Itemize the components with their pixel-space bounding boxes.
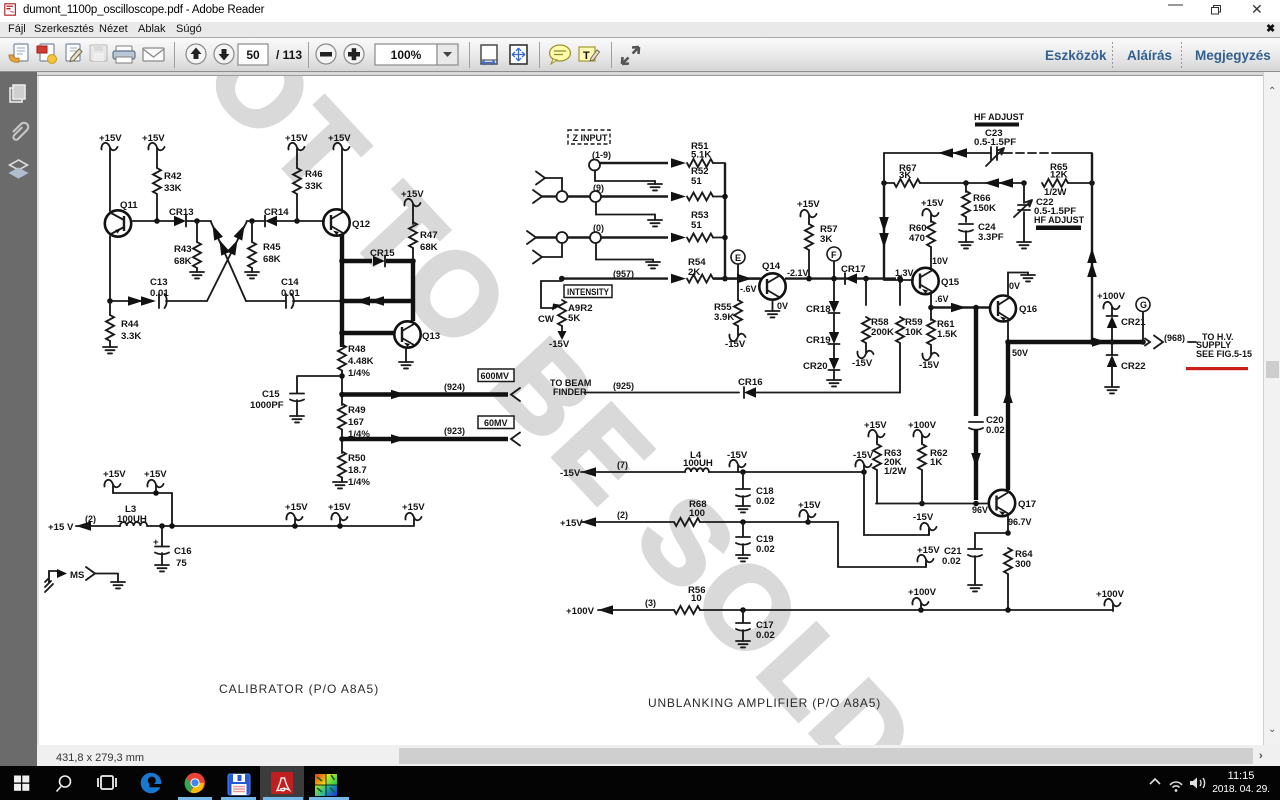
- resistor R45: [245, 221, 281, 278]
- diode CR13: [169, 207, 211, 227]
- node dots: [339, 298, 345, 304]
- connector (1-9): [589, 150, 611, 171]
- thick wire Q17 collector with up arrow: [1003, 342, 1013, 490]
- wire -15V output (7): [560, 460, 685, 479]
- zoom in: [344, 44, 364, 64]
- node E: [731, 250, 745, 279]
- resistor R55: [714, 279, 746, 350]
- connector chevron 1: [536, 172, 562, 192]
- resistor R56: [674, 585, 1113, 614]
- resistor R53: [687, 210, 725, 242]
- wire (9) ground drop: [596, 203, 662, 226]
- wire down to +15V rail: [171, 493, 173, 526]
- node dots CR15 row: [339, 258, 345, 264]
- resistor R54: [687, 257, 762, 283]
- power +100V (end rail): [1096, 589, 1125, 611]
- thick wire 50V row to HV: [1008, 337, 1150, 347]
- node dots on 50V row: [1089, 339, 1095, 345]
- node dots Q14 row: [806, 276, 812, 282]
- print icon: [113, 46, 135, 63]
- node dot: [194, 218, 200, 224]
- colorful viewer: [315, 774, 337, 796]
- node dot 50V: [1005, 339, 1011, 345]
- capacitor C16: [153, 526, 192, 571]
- node dot Q15 emitter: [928, 305, 934, 311]
- power +15V P4: [328, 133, 351, 210]
- potentiometer A9R2: [538, 279, 593, 350]
- wire +15V output (2): [560, 510, 674, 529]
- diode CR19: [806, 313, 840, 346]
- node dot (957): [559, 276, 565, 282]
- label TO H.V. SUPPLY: [1196, 332, 1252, 359]
- transistor Q12: [323, 209, 370, 235]
- node dots (7) line: [740, 469, 746, 475]
- chrome: [185, 773, 205, 793]
- power +100V (mid rail): [908, 587, 937, 610]
- transistor Q15: [884, 268, 960, 294]
- power +15V P1: [99, 133, 122, 211]
- thick bus Z input sum: [724, 163, 726, 279]
- node dot right bus top: [1089, 180, 1095, 186]
- wire (7) line to junction: [709, 471, 864, 473]
- node dots: [249, 218, 255, 224]
- connector chevron 2: [533, 190, 557, 203]
- diode CR15: [370, 248, 413, 267]
- wire line (9): [568, 183, 668, 202]
- wire left feedback vertical: [883, 153, 885, 183]
- connector (968) to HV supply: [1154, 333, 1196, 349]
- wire (924) 600MV output: [342, 382, 520, 401]
- resistor R44: [103, 301, 141, 353]
- label HF ADJUST (C22): [1034, 215, 1085, 230]
- search: [57, 776, 71, 792]
- arrow R51: [671, 158, 686, 168]
- task view: [98, 776, 116, 789]
- svg-text:100%: 100%: [391, 48, 422, 62]
- capacitor C23 (trimmer): [974, 128, 1016, 166]
- resistor R61: [919, 319, 957, 371]
- node dot: [107, 298, 113, 304]
- wire -15V drop to C21 row: [864, 472, 937, 535]
- power +100V CR21: [1097, 291, 1126, 315]
- thick bus Q12 emitter: [340, 235, 344, 347]
- expand arrows: [622, 47, 639, 64]
- capacitor C15: [250, 376, 342, 422]
- cross-coupling diagonal D1 (to C14): [208, 222, 246, 301]
- power +15V P2: [142, 133, 165, 168]
- wire Q16 emitter: [1007, 321, 1009, 342]
- connector chevron 4: [533, 243, 562, 264]
- inductor L3: [117, 504, 147, 526]
- thick bus R47/Q13 collector: [411, 261, 415, 321]
- node dot emitter: [1005, 530, 1011, 536]
- thick arrow into Q14: [737, 274, 752, 284]
- node dots (2) line: [740, 519, 746, 525]
- power +15V P6: [103, 469, 172, 493]
- wire line (1-9) to R51: [600, 162, 668, 164]
- power +15V P10: [402, 502, 425, 525]
- capacitor C18: [736, 472, 775, 512]
- wire line (0): [536, 223, 668, 243]
- resistor R42: [153, 168, 182, 221]
- resistor R65: [1042, 162, 1092, 198]
- export icon: [37, 44, 57, 64]
- page num box: [238, 44, 268, 65]
- connector MS: [45, 567, 125, 592]
- comment bubble: [550, 45, 571, 64]
- cross-coupling diagonal D2 (to C13): [207, 222, 249, 301]
- node dot R66 top: [963, 180, 969, 186]
- capacitor C24: [959, 222, 1004, 248]
- thick bus down with arrows: [879, 183, 889, 280]
- wire (2) line jog to +15V: [808, 522, 940, 567]
- wire with arrows to C22: [966, 178, 1024, 188]
- inductor L4: [683, 450, 713, 472]
- power +15V (on (2) line): [798, 500, 821, 522]
- wire (0) ground drop: [596, 244, 660, 268]
- wire (1-9) ground drop: [595, 170, 662, 190]
- capacitor C22 (trimmer): [1014, 183, 1076, 248]
- resistor R63: [873, 442, 907, 504]
- label box 600MV: [478, 369, 514, 382]
- wire feedback top row: [884, 148, 1092, 158]
- resistor R62: [918, 442, 948, 504]
- diode CR21: [1107, 316, 1147, 342]
- label HF ADJUST (top): [974, 112, 1025, 127]
- resistor R52: [687, 166, 725, 201]
- page down: [214, 44, 234, 64]
- start: [14, 776, 29, 791]
- node dot R67 left: [881, 180, 887, 186]
- resistor R60: [909, 221, 948, 268]
- save icon (disabled): [90, 45, 107, 61]
- label box 60MV: [478, 416, 514, 429]
- zoom out: [316, 44, 336, 64]
- node dots +100V line: [740, 607, 746, 613]
- capacitor C13: [110, 277, 207, 308]
- thick wire arrows row to C14: [342, 296, 413, 306]
- wire Q17 base row: [876, 503, 989, 505]
- node dots on bus: [722, 194, 728, 200]
- wire Q14 collector row: [785, 277, 896, 279]
- transistor Q16: [990, 296, 1037, 322]
- transistor Q14: [713, 261, 788, 317]
- capacitor C17: [736, 610, 775, 647]
- capacitor C19: [736, 522, 775, 561]
- zoom box: [375, 44, 437, 65]
- diode CR20: [803, 344, 841, 386]
- power +15V P3 / resistor R46: [285, 133, 323, 221]
- svg-text:/ 113: / 113: [276, 48, 302, 62]
- node dot C15 tap: [339, 373, 345, 379]
- resistor R50: [333, 452, 370, 489]
- node dots base row: [919, 501, 925, 507]
- adobe active bg: [260, 766, 304, 800]
- power +15V R57: [797, 199, 820, 224]
- resistor R67: [884, 163, 966, 187]
- red underline: [1186, 367, 1248, 370]
- edit icon: [66, 44, 82, 62]
- wire Q16 collector to ground: [1008, 273, 1035, 297]
- wire +15V rail: [147, 525, 414, 527]
- thick wire CR15 row: [342, 259, 372, 263]
- wire (923) 60MV output: [342, 426, 520, 446]
- node G: [1136, 298, 1150, 343]
- node dots on rail: [159, 523, 165, 529]
- transistor Q13: [342, 321, 440, 368]
- open/convert icon: [9, 44, 28, 62]
- email icon: [143, 48, 164, 61]
- resistor R58: [852, 279, 894, 369]
- arrow R52: [671, 192, 686, 202]
- resistor R59: [896, 276, 923, 393]
- power -15V (at 864): [853, 450, 874, 472]
- resistor R57: [805, 224, 838, 279]
- diode CR14: [247, 207, 324, 227]
- thick bus C20 (Q16 base tap): [969, 308, 1005, 501]
- wire to CR13: [157, 220, 174, 222]
- wire Q11 base: [131, 220, 157, 222]
- node dot C20 bus top: [973, 305, 979, 311]
- resistor R48: [338, 344, 374, 405]
- wire right feedback vertical with up arrows: [1087, 153, 1097, 342]
- power +15V R60: [921, 198, 944, 222]
- power -15V on (7) line: [727, 450, 748, 472]
- wire TO BEAM FINDER (925): [550, 377, 900, 398]
- svg-text:50: 50: [246, 48, 260, 62]
- node dot: [154, 218, 160, 224]
- power +15V P9: [328, 502, 351, 525]
- capacitor C14: [246, 277, 341, 308]
- resistor R49: [338, 404, 370, 454]
- power +15V P8: [285, 502, 308, 525]
- floppy app: [228, 774, 250, 795]
- power +100V (R62): [908, 420, 937, 442]
- transistor Q17: [989, 490, 1036, 516]
- diode CR17: [841, 264, 866, 284]
- resistor R64: [1004, 548, 1033, 610]
- diode CR22: [1105, 342, 1146, 393]
- diode chain CR18: [831, 276, 837, 282]
- highlight text: [579, 47, 600, 62]
- resistor R51: [687, 141, 725, 167]
- label box INTENSITY: [564, 285, 612, 298]
- transistor Q11: [105, 200, 138, 301]
- connector chevron 3: [527, 231, 536, 244]
- resistor R43: [174, 221, 204, 278]
- node dot C22 top: [1021, 180, 1027, 186]
- edge: [141, 773, 162, 794]
- resistor R66: [962, 183, 996, 222]
- fit page: [510, 45, 527, 64]
- capacitor C21: [942, 533, 1008, 591]
- node dot 924 tap: [339, 392, 345, 398]
- power +15V P7: [144, 469, 167, 496]
- power +15V (R63): [864, 420, 887, 442]
- wire Q15 emitter: [931, 294, 949, 320]
- resistor R68: [674, 499, 808, 526]
- power +15V P5 / resistor R47: [401, 189, 438, 258]
- node F: [827, 247, 841, 279]
- svg-text:T: T: [583, 50, 590, 62]
- arrow R53: [671, 233, 686, 243]
- label box Z INPUT (dashed): [568, 130, 610, 144]
- node dot 923 tap: [339, 436, 345, 442]
- page up: [186, 44, 206, 64]
- wire +15 V left output: [48, 514, 120, 533]
- wire (957) line: [562, 269, 686, 283]
- connector circle on (9) line: [557, 191, 568, 202]
- wire +100V output (3): [566, 598, 674, 617]
- wire Q17 emitter: [1007, 516, 1009, 533]
- fit width: [481, 45, 497, 65]
- arrow to Q16 base: [931, 303, 990, 313]
